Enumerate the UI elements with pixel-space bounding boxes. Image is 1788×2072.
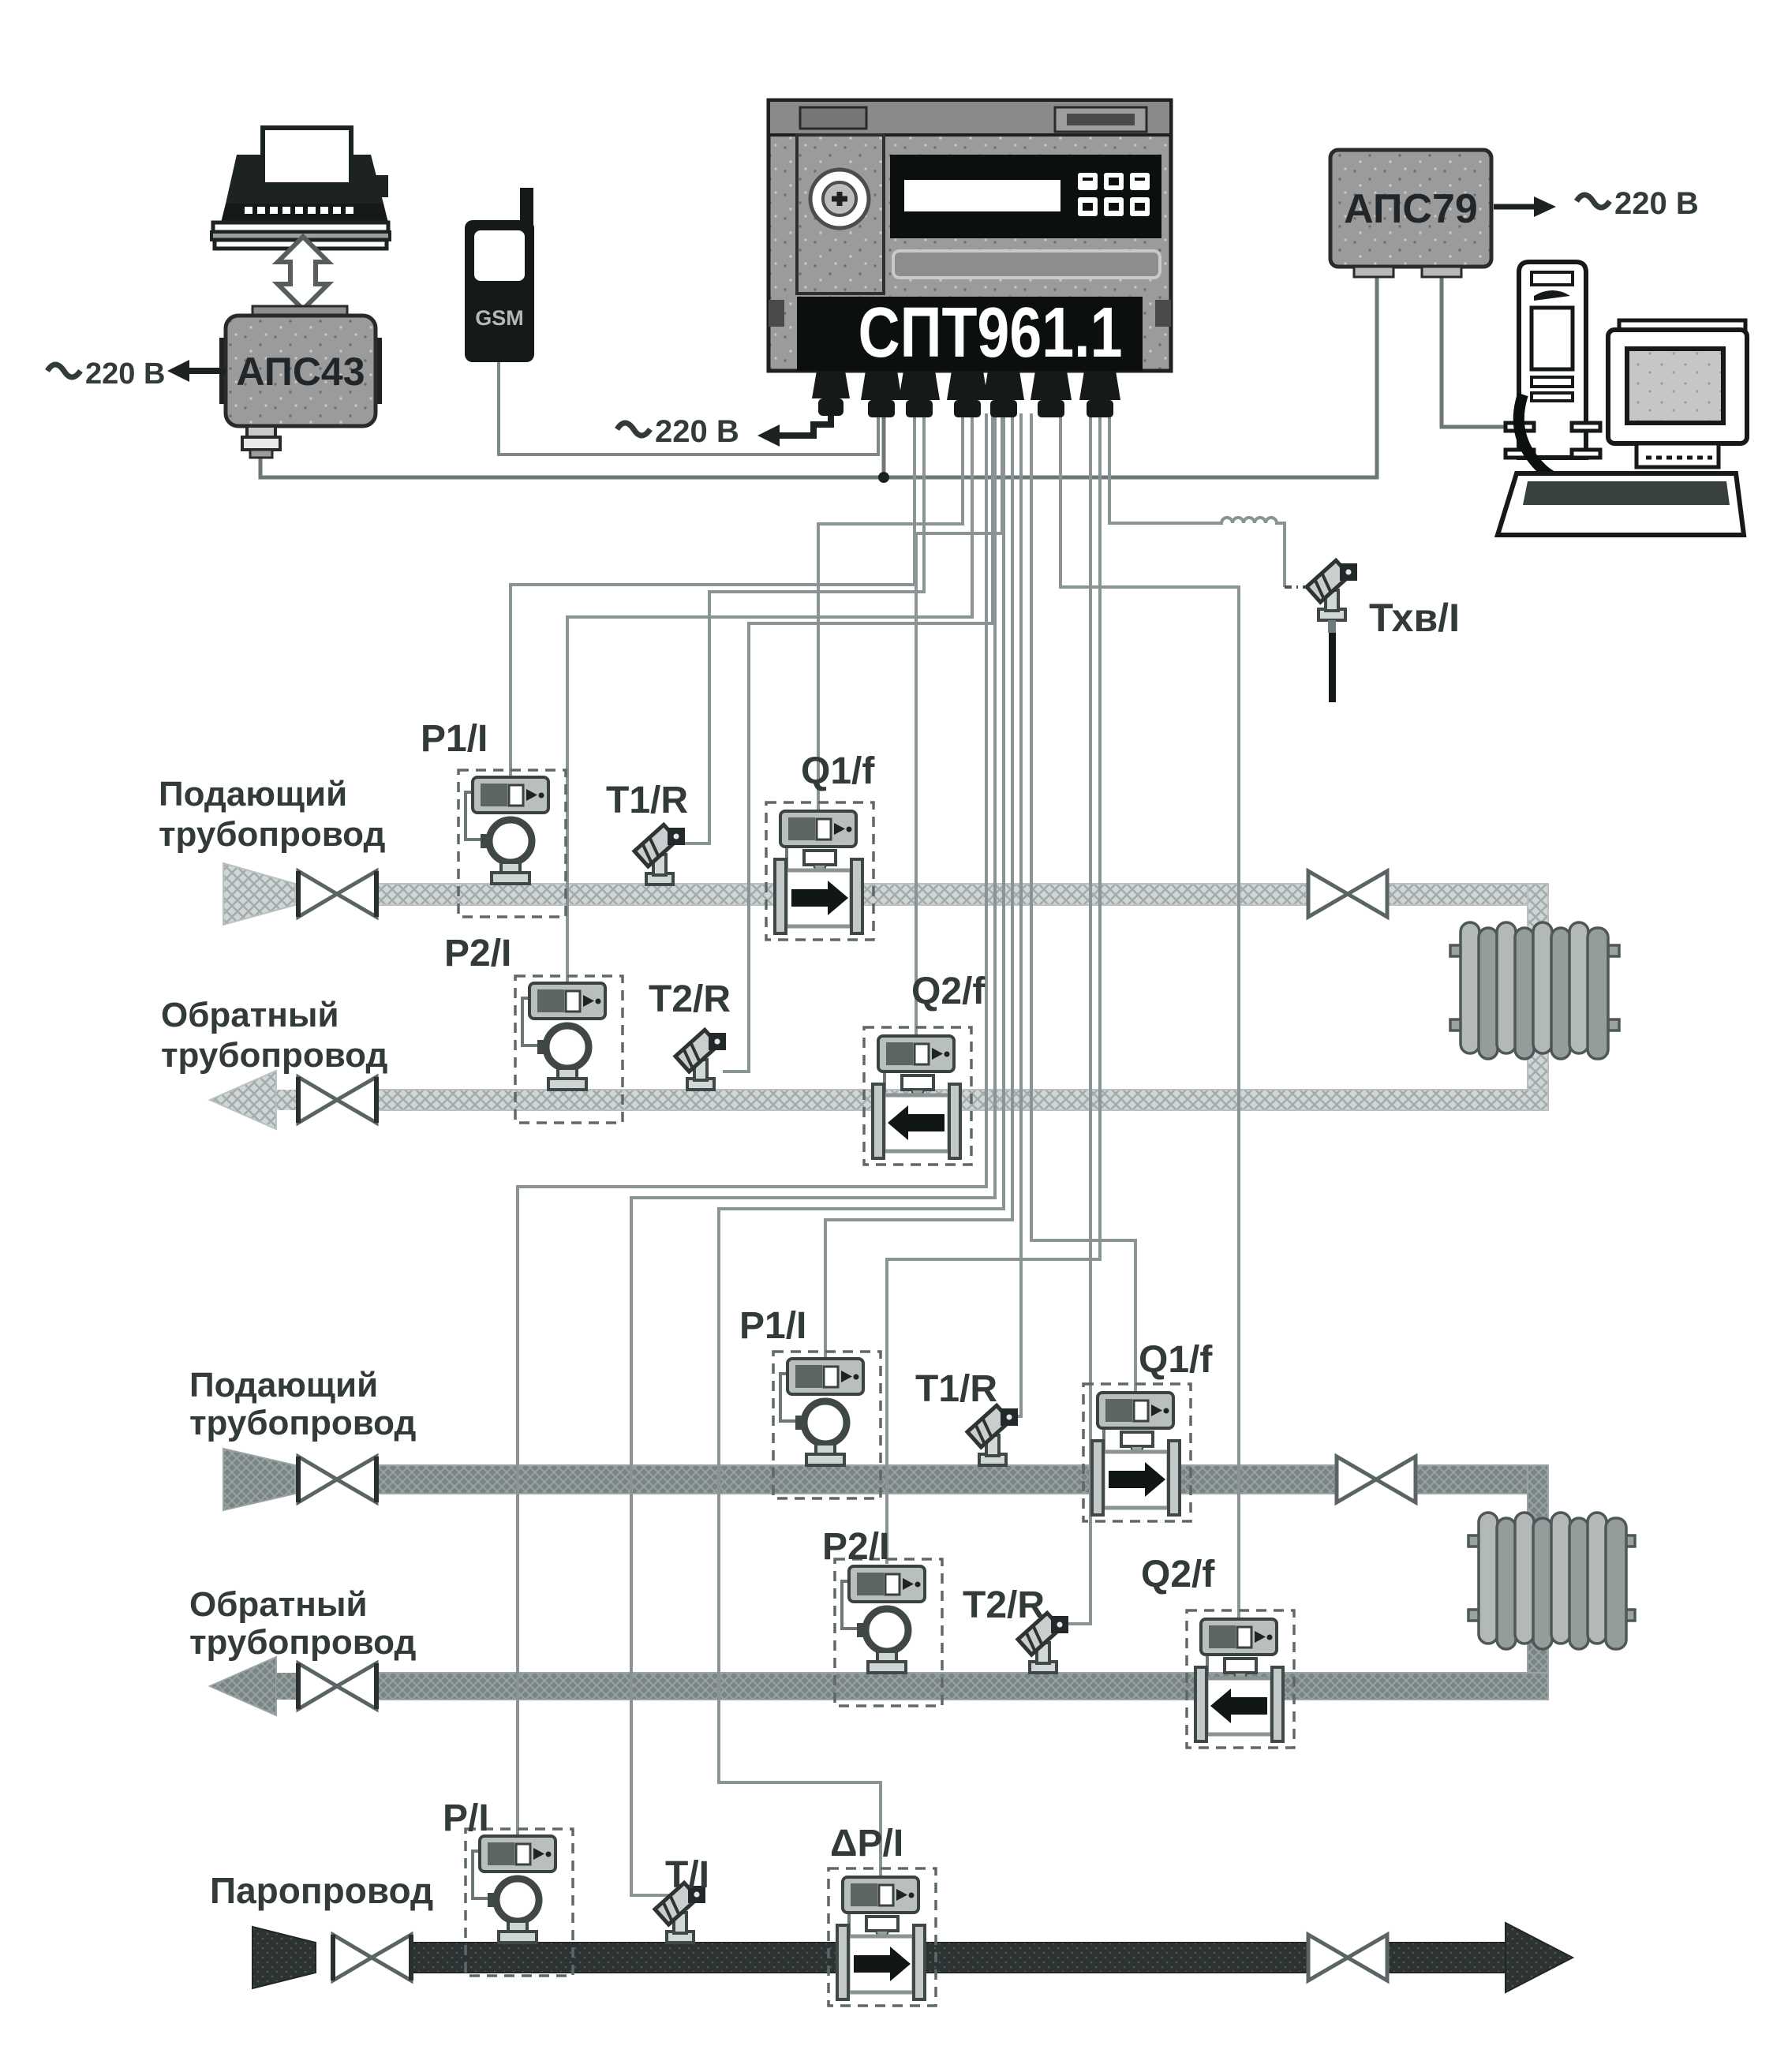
wire T2/R circuit1: [723, 413, 993, 1072]
svg-text:АПС43: АПС43: [236, 350, 365, 394]
pipe return-1 segment B: [378, 1090, 1548, 1110]
arrow APS79 to 220V: [1494, 196, 1556, 217]
svg-text:трубопровод: трубопровод: [189, 1404, 416, 1442]
sensor Q2/f circuit2 flow meter: [1187, 1610, 1294, 1748]
radiator 2: [1468, 1513, 1635, 1649]
radiator 1: [1450, 922, 1619, 1059]
valve return-1 left: [298, 1077, 376, 1123]
pipe supply-1 inlet taper: [223, 863, 295, 925]
sensor Q1/f circuit1 flow meter: [766, 802, 873, 940]
valve supply-2 left: [298, 1457, 376, 1502]
pipe return-2 arrowhead: [210, 1657, 276, 1715]
svg-text:АПС79: АПС79: [1344, 186, 1478, 232]
pipe riser-1 through radiator: [1528, 884, 1548, 1110]
pipe supply-1 segment A: [378, 884, 1307, 905]
pipe steam outlet arrowhead: [1506, 1923, 1573, 1992]
device APS79: [1330, 150, 1491, 277]
printer link double arrow: [278, 237, 328, 309]
wire P/I steam: [518, 413, 986, 1835]
sensor P2/I circuit1 pressure transmitter: [515, 976, 623, 1123]
svg-text:T/I: T/I: [665, 1854, 709, 1896]
computer monitor: [1608, 320, 1747, 467]
svg-text:ΔP/I: ΔP/I: [830, 1823, 903, 1864]
label 220V left of APS43: [47, 357, 165, 391]
wire T/I steam: [631, 413, 995, 1895]
sensor T1/R circuit2 thermometer: [967, 1405, 1018, 1465]
wire power 220V from gland 1: [757, 413, 831, 447]
svg-text:P1/I: P1/I: [739, 1305, 806, 1347]
svg-text:220 В: 220 В: [1614, 186, 1699, 221]
GSM handset: [465, 188, 534, 362]
svg-text:T2/R: T2/R: [963, 1584, 1045, 1626]
wire Q2/f circuit1: [916, 413, 1002, 1036]
device SPT961.1 controller: [769, 100, 1171, 372]
wire Q1/f circuit1: [818, 413, 963, 810]
wire T1/R circuit1: [682, 413, 924, 843]
wire Q1/f circuit2: [1031, 413, 1135, 1391]
sensor dP/I steam flow meter: [829, 1868, 936, 2006]
svg-text:T1/R: T1/R: [915, 1368, 997, 1410]
svg-text:Обратный: Обратный: [161, 996, 339, 1034]
pipe supply-2 inlet taper: [223, 1449, 295, 1510]
wire P1/I circuit2: [825, 413, 1012, 1357]
sensor P1/I circuit2 pressure transmitter: [773, 1352, 881, 1498]
printer: [211, 128, 390, 249]
valve return-2 left: [298, 1663, 376, 1709]
wire Txv/I dash-dot tail: [1285, 585, 1307, 589]
svg-text:Q1/f: Q1/f: [801, 750, 875, 792]
wire Q2/f circuit2: [1060, 413, 1239, 1618]
svg-text:220 В: 220 В: [85, 357, 165, 391]
wire GSM handset to gland 2: [499, 361, 878, 454]
wire P2/I circuit2: [887, 413, 1100, 1564]
pipe return-1 segment A: [276, 1090, 297, 1110]
svg-text:Q1/f: Q1/f: [1139, 1339, 1213, 1381]
junction comm bus: [878, 472, 889, 483]
wire P1/I circuit1: [511, 413, 915, 776]
pipe riser-2 through radiator: [1528, 1465, 1548, 1700]
pipe return-2 segment B: [378, 1673, 1548, 1700]
svg-text:Паропровод: Паропровод: [210, 1870, 433, 1911]
sensor Q2/f circuit1 flow meter: [864, 1027, 971, 1165]
valve supply-1 right: [1308, 871, 1387, 917]
sensor Q1/f circuit2 flow meter: [1083, 1384, 1191, 1521]
sensor P/I steam pressure transmitter: [466, 1829, 573, 1976]
svg-text:трубопровод: трубопровод: [189, 1623, 416, 1662]
pipe return-2 segment A: [276, 1673, 297, 1700]
pipe supply-2 segment A: [378, 1465, 1335, 1494]
pipe supply-2 segment B: [1417, 1465, 1548, 1494]
pipe supply-1 segment B: [1389, 884, 1548, 905]
svg-text:GSM: GSM: [475, 306, 524, 330]
pipe return-1 arrowhead: [210, 1071, 276, 1129]
valve steam left: [333, 1935, 411, 1980]
pipe steam segment B: [1387, 1943, 1507, 1973]
svg-text:Q2/f: Q2/f: [911, 971, 986, 1012]
label 220V under SPT961.1: [617, 414, 739, 449]
wire gland 2 drop to comm bus: [882, 413, 886, 477]
sensor Txv/I cold water thermometer: [1307, 560, 1357, 702]
cable glands under SPT961.1: [812, 371, 1120, 417]
sensor T/I steam thermometer: [655, 1883, 705, 1943]
device APS43: [219, 306, 382, 458]
valve supply-2 right: [1337, 1457, 1416, 1502]
wire comm bus APS43 to APS79: [260, 278, 1377, 477]
svg-text:Подающий: Подающий: [159, 775, 347, 813]
pipe steam inlet taper: [252, 1927, 316, 1988]
wire T2/R circuit2: [1065, 413, 1090, 1624]
wire P2/I circuit1: [567, 413, 972, 982]
svg-text:Обратный: Обратный: [189, 1585, 368, 1624]
valve steam right: [1308, 1935, 1387, 1980]
svg-text:220 В: 220 В: [655, 414, 739, 449]
svg-text:P/I: P/I: [443, 1797, 489, 1839]
wire Txv/I with coil: [1109, 413, 1285, 587]
label 220V right of APS79: [1577, 186, 1699, 221]
svg-text:СПТ961.1: СПТ961.1: [858, 294, 1123, 372]
arrow APS43 to 220V: [167, 360, 226, 382]
svg-text:P1/I: P1/I: [421, 718, 488, 760]
computer keyboard: [1498, 473, 1744, 535]
svg-text:Тхв/I: Тхв/I: [1369, 596, 1460, 640]
svg-text:трубопровод: трубопровод: [159, 815, 385, 854]
wire dP/I steam: [719, 413, 1004, 1876]
svg-text:Q2/f: Q2/f: [1141, 1554, 1215, 1595]
sensor P1/I circuit1 pressure transmitter: [458, 770, 566, 917]
svg-text:P2/I: P2/I: [444, 933, 511, 974]
pipe steam segment A: [413, 1943, 1307, 1973]
svg-text:P2/I: P2/I: [822, 1526, 889, 1568]
sensor T2/R circuit2 thermometer: [1018, 1613, 1068, 1673]
svg-text:T2/R: T2/R: [649, 978, 731, 1020]
sensor T2/R circuit1 thermometer: [675, 1030, 726, 1090]
svg-text:T1/R: T1/R: [606, 780, 688, 821]
wire T1/R circuit2: [1015, 413, 1021, 1416]
computer tower: [1506, 262, 1600, 480]
svg-text:трубопровод: трубопровод: [161, 1036, 387, 1075]
wire APS79 to computer: [1442, 278, 1517, 427]
valve supply-1 left: [298, 871, 376, 917]
svg-text:Подающий: Подающий: [189, 1366, 378, 1404]
sensor P2/I circuit2 pressure transmitter: [835, 1559, 942, 1706]
sensor T1/R circuit1 thermometer: [634, 825, 685, 885]
